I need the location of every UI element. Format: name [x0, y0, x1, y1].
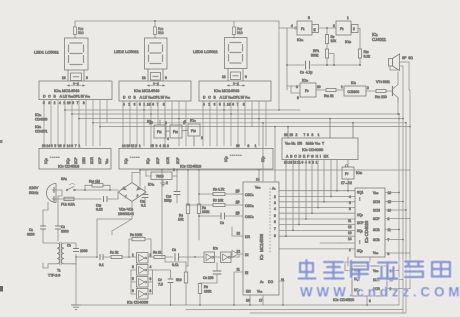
svg-text:2: 2 — [367, 86, 369, 90]
node staircase dots — [285, 190, 349, 237]
capacitor C8 — [198, 211, 243, 225]
svg-text:11: 11 — [237, 268, 241, 272]
svg-text:1: 1 — [349, 248, 351, 252]
node t1 gnd — [75, 256, 77, 258]
node rail joins — [139, 169, 260, 171]
svg-text:5: 5 — [349, 201, 351, 205]
capacitor C5 — [172, 248, 204, 267]
gate IC2d — [165, 121, 185, 138]
svg-text:10k: 10k — [331, 39, 337, 43]
wire ground bus 2 — [250, 312, 406, 314]
svg-text:0.1λ: 0.1λ — [172, 263, 179, 267]
transistor VT4 9011 — [376, 72, 398, 103]
counter IC8 CD4518R — [348, 188, 391, 257]
capacitor C1 — [27, 226, 46, 241]
svg-text:2: 2 — [166, 181, 168, 185]
svg-text:C3: C3 — [67, 244, 71, 248]
svg-text:3CP: 3CP — [373, 217, 380, 221]
wire right vertical v4 — [405, 123, 407, 313]
label IC2a CD4069 — [35, 113, 48, 122]
wire gate stub up — [159, 120, 161, 125]
watermark glyph row — [299, 260, 451, 279]
svg-text:10 16 2 7 9 8: 10 16 2 7 9 8 1 — [284, 133, 320, 137]
svg-text:2CN: 2CN — [373, 200, 380, 204]
wire slant joint — [112, 219, 132, 235]
speaker SP — [389, 54, 414, 71]
resistor R15 — [73, 21, 83, 38]
svg-text:510: 510 — [158, 31, 164, 35]
svg-text:IC4b MC14543: IC4b MC14543 — [134, 88, 160, 93]
svg-text:R1 2k: R1 2k — [110, 251, 119, 255]
wire amp mid links — [153, 257, 187, 275]
svg-text:- - - - -: - - - - - — [130, 155, 139, 159]
wire ground bus 3 — [186, 309, 403, 311]
svg-text:IC4 CD4518: IC4 CD4518 — [58, 164, 80, 169]
node pre gate — [194, 256, 196, 258]
svg-text:510: 510 — [78, 31, 84, 35]
wire ground bus 1 — [76, 304, 399, 306]
potentiometer RP1 — [311, 44, 334, 66]
svg-text:C8: C8 — [220, 221, 224, 225]
wire bridge left in — [117, 192, 119, 199]
svg-text:CD4069: CD4069 — [35, 118, 48, 122]
label IC1 CJ4011 — [372, 32, 387, 42]
op-amp U2 MC14543 #2 — [119, 81, 191, 107]
svg-text:R2 100k: R2 100k — [130, 233, 142, 237]
capacitor C12 — [164, 192, 180, 204]
svg-text:1CR: 1CR — [166, 157, 170, 164]
svg-text:IC7 MC14566: IC7 MC14566 — [259, 233, 264, 260]
svg-text:IC2b: IC2b — [35, 125, 42, 129]
svg-text:D C B A LE VDDDF1 BI VS: D C B A LE VDDDF1 BI VSS — [123, 96, 171, 100]
wire column group display2 decoder pins — [123, 101, 186, 146]
svg-text:14 10 12 2 1 15 9: 14 10 12 2 1 15 9 4 11 3 — [122, 144, 169, 148]
gate IC1a — [291, 16, 319, 42]
wire gnd drop — [75, 257, 77, 305]
wire drop to gate IC1a — [279, 21, 295, 28]
svg-text:DO: DO — [268, 280, 273, 284]
svg-text:IC2a: IC2a — [35, 113, 42, 117]
svg-text:E: E — [314, 28, 316, 32]
svg-text:10: 10 — [149, 121, 153, 125]
svg-text:EI: EI — [245, 271, 248, 275]
svg-text:VD1~VD4: VD1~VD4 — [119, 208, 134, 212]
svg-text:IC1b: IC1b — [345, 40, 352, 44]
svg-text:11: 11 — [388, 228, 392, 232]
wire gate chain right — [152, 270, 154, 294]
wire right vertical v5 — [409, 62, 410, 127]
wire gate stub down — [193, 136, 195, 146]
svg-text:6: 6 — [349, 207, 351, 211]
svg-text:13 14 6 5 16 2 14 8 7 1: 13 14 6 5 16 2 14 8 7 1 — [42, 144, 80, 148]
svg-text:a~g: a~g — [233, 82, 239, 86]
svg-text:- - - - -: - - - - - — [50, 155, 59, 159]
svg-text:2: 2 — [150, 253, 152, 257]
svg-text:13: 13 — [222, 75, 226, 79]
svg-text:9: 9 — [297, 96, 299, 100]
node bus junctions — [64, 109, 411, 127]
resistor R4 pullup — [178, 170, 190, 266]
svg-text:IC4c MC14543: IC4c MC14543 — [214, 88, 240, 93]
svg-text:16: 16 — [246, 299, 250, 303]
wire right vertical v1 emitter — [397, 98, 399, 115]
resistor R5 — [198, 283, 211, 305]
gate IC6b buffer — [341, 165, 363, 185]
wire right vertical v3 — [400, 66, 404, 313]
svg-text:IC2: IC2 — [351, 81, 356, 85]
svg-text:5: 5 — [308, 16, 310, 20]
counter IC4 CD4518 — [39, 144, 111, 169]
svg-text:R6 4.7k: R6 4.7k — [213, 188, 224, 192]
wire IC8 right stubs — [385, 193, 410, 254]
wire bus PH line — [79, 118, 403, 120]
wire gate chain left — [130, 270, 132, 294]
wire IC7 vdd stub — [258, 170, 260, 182]
svg-text:3CN: 3CN — [373, 209, 380, 213]
svg-text:12: 12 — [348, 225, 352, 229]
svg-text:2: 2 — [274, 195, 276, 199]
svg-text:IC4a: IC4a — [148, 183, 155, 187]
capacitor C6 — [200, 263, 221, 284]
svg-text:SA1: SA1 — [61, 177, 68, 181]
svg-text:EN: EN — [246, 290, 251, 294]
svg-text:19: 19 — [236, 201, 240, 205]
resistor R3 — [153, 251, 173, 259]
svg-text:11: 11 — [348, 219, 352, 223]
inverter IC2-2 — [131, 265, 153, 276]
wire CD4060 top pins — [287, 118, 354, 138]
svg-text:IC6b: IC6b — [356, 171, 363, 175]
counter IC9 CD4520 — [333, 266, 393, 303]
gate IC3a — [204, 247, 221, 263]
wire IC7 bottom stubs — [250, 281, 283, 305]
svg-text:5: 5 — [132, 277, 134, 281]
fuse FU — [56, 197, 101, 206]
svg-text:IC6 CD4060: IC6 CD4060 — [302, 147, 324, 152]
gate IC3b — [221, 252, 240, 263]
svg-text:LED3 LC5011: LED3 LC5011 — [193, 49, 219, 54]
gate IC1c — [287, 79, 321, 101]
svg-text:D C B A LE VDDDF1 BI VS: D C B A LE VDDDF1 BI VSS — [203, 96, 251, 100]
svg-text:12: 12 — [237, 250, 241, 254]
svg-text:8: 8 — [150, 289, 152, 293]
node J1 — [154, 20, 156, 22]
ground main — [72, 305, 81, 309]
wire bus s1 line — [93, 122, 406, 124]
capacitor C7 — [158, 275, 173, 305]
svg-text:VT4 9011: VT4 9011 — [376, 80, 390, 84]
svg-text:R3 1k: R3 1k — [153, 251, 162, 255]
svg-text:- - - - - -: - - - - - - — [230, 153, 242, 157]
scan artifact left edge 1 — [0, 140, 3, 143]
buffer into DI pin — [232, 251, 238, 258]
wire bus to IC7 A1 — [263, 123, 275, 182]
svg-text:DR: DR — [245, 235, 250, 239]
plug P1 — [47, 184, 63, 203]
svg-text:IC1c: IC1c — [302, 79, 309, 83]
svg-text:17→12: 17→12 — [341, 181, 352, 185]
svg-text:6: 6 — [150, 277, 152, 281]
capacitor C2 — [56, 225, 69, 241]
ground 7805 — [161, 180, 166, 186]
svg-text:⋮: ⋮ — [358, 240, 361, 244]
inverter IC2-4 — [131, 289, 153, 300]
wire column group display1 decoder pins — [44, 100, 107, 147]
svg-text:C5: C5 — [172, 248, 176, 252]
svg-text:4: 4 — [291, 24, 293, 28]
svg-text:a~g: a~g — [73, 82, 79, 86]
svg-text:1: 1 — [132, 253, 134, 257]
switch SA1 — [61, 177, 85, 191]
svg-text:9: 9 — [132, 289, 134, 293]
svg-text:0.1: 0.1 — [99, 263, 104, 267]
wire right vertical v2 — [398, 114, 400, 305]
capacitor C4 — [99, 255, 104, 268]
resistor R16 — [153, 21, 163, 38]
svg-text:100k: 100k — [202, 210, 210, 214]
wire drop from top bus x279 — [278, 28, 280, 110]
wire osc feedback — [287, 64, 360, 66]
svg-text:2CP: 2CP — [357, 221, 364, 225]
svg-text:0.1: 0.1 — [141, 204, 146, 208]
capacitor C3 — [67, 244, 88, 254]
resistor R11 — [316, 88, 344, 98]
IC U7 MC14566 — [236, 178, 285, 303]
svg-text:7: 7 — [388, 238, 390, 242]
svg-text:510: 510 — [176, 278, 182, 282]
svg-text:0.22: 0.22 — [96, 208, 103, 212]
svg-text:9: 9 — [245, 75, 247, 79]
gate IC2c — [147, 120, 169, 142]
display LED2 LC5011 — [114, 38, 167, 69]
svg-text:510: 510 — [237, 31, 243, 35]
svg-text:3: 3 — [165, 121, 167, 125]
svg-text:18: 18 — [236, 212, 240, 216]
svg-text:C6 150: C6 150 — [203, 276, 214, 280]
svg-text:LED2 LC5011: LED2 LC5011 — [114, 49, 140, 54]
svg-text:3CB: 3CB — [373, 238, 380, 242]
svg-text:13: 13 — [62, 76, 66, 80]
wire osc left drop — [286, 28, 288, 90]
svg-text:F11: F11 — [157, 130, 162, 134]
svg-text:FU1 0.5A: FU1 0.5A — [61, 203, 76, 207]
svg-text:100k: 100k — [204, 290, 212, 294]
resistor RT 510 — [176, 266, 188, 305]
wire secondary to amp — [76, 256, 96, 258]
svg-text:1EN: 1EN — [82, 157, 86, 164]
svg-text:7.5: 7.5 — [158, 283, 163, 287]
svg-text:2: 2 — [201, 136, 203, 140]
svg-text:R14 1M: R14 1M — [89, 180, 100, 184]
display LED1 pin links 13 9 — [62, 70, 88, 81]
wire column group display3 decoder pins — [203, 101, 266, 146]
svg-text:2: 2 — [353, 27, 355, 31]
svg-text:13: 13 — [348, 231, 352, 235]
wire r4 to 510 — [186, 265, 188, 267]
svg-text:9: 9 — [165, 76, 167, 80]
resistor R1 — [103, 251, 129, 259]
svg-text:10k: 10k — [178, 218, 184, 222]
svg-text:R7 10k: R7 10k — [213, 199, 224, 203]
counter IC5 CD4518 — [119, 144, 273, 169]
wire IC7 left pin stubs — [232, 227, 243, 305]
resistor R12 — [366, 89, 392, 99]
svg-text:4: 4 — [150, 265, 152, 269]
svg-text:8: 8 — [369, 299, 371, 303]
svg-text:16: 16 — [388, 191, 392, 195]
svg-text:1CP: 1CP — [98, 157, 102, 164]
svg-text:5: 5 — [184, 120, 186, 124]
svg-text:6: 6 — [274, 220, 276, 224]
svg-text:5: 5 — [274, 214, 276, 218]
node bus dots — [170, 304, 368, 306]
svg-text:1N4001×4: 1N4001×4 — [118, 212, 134, 216]
scan artifact left edge 2 — [0, 286, 3, 292]
display LED2 pin links 13 9 — [142, 69, 167, 81]
svg-text:3Q1: 3Q1 — [357, 191, 364, 195]
svg-text:3: 3 — [274, 201, 276, 205]
wire gate link 2 — [182, 130, 188, 131]
wire right vertical v6 — [409, 127, 411, 289]
svg-text:14 13 12 11 6 4 5 3 1: 14 13 12 11 6 4 5 3 1 — [284, 161, 318, 165]
wire bus s2 line — [100, 126, 410, 128]
svg-text:R10: R10 — [364, 50, 370, 54]
wire top supply bus — [75, 20, 279, 22]
transformer T1 — [43, 241, 76, 278]
svg-text:CJ9300: CJ9300 — [348, 90, 360, 94]
wire CD4060 drops — [286, 160, 348, 237]
display LED3 LC5011 — [193, 38, 247, 69]
wire IC9 stubs — [345, 257, 410, 305]
svg-text:WWW.cndzz.COM: WWW.cndzz.COM — [300, 285, 460, 300]
svg-text:6.2k: 6.2k — [364, 55, 371, 59]
regulator 7805 — [146, 168, 177, 191]
node IC8 right dots — [398, 192, 407, 241]
svg-text:16 8 1: 16 8 1 — [236, 144, 257, 148]
svg-text:50Hz: 50Hz — [29, 190, 38, 195]
node right joins — [397, 113, 404, 119]
svg-text:20: 20 — [236, 190, 240, 194]
svg-text:R5: R5 — [204, 285, 208, 289]
svg-text:7805: 7805 — [156, 175, 164, 179]
svg-text:a~g: a~g — [153, 82, 159, 86]
resistor R9 — [325, 28, 336, 44]
svg-text:IC2 CD4069: IC2 CD4069 — [127, 300, 149, 305]
gate IC2e — [184, 119, 203, 141]
display LED3 pin links 13 9 — [222, 69, 247, 82]
svg-text:14: 14 — [348, 237, 352, 241]
capacitor C9 — [300, 61, 312, 75]
svg-text:4: 4 — [167, 137, 169, 141]
resistor R7 — [187, 199, 243, 207]
svg-text:IC5 CD4518: IC5 CD4518 — [180, 164, 202, 169]
counter IC6 CD4060 — [282, 133, 358, 165]
svg-text:15: 15 — [388, 200, 392, 204]
node sec join — [96, 256, 98, 258]
svg-text:SP 8Ω: SP 8Ω — [402, 56, 413, 60]
svg-text:C2: C2 — [61, 225, 65, 229]
wire bridge bottom down — [97, 202, 132, 258]
svg-text:LED1 LC5011: LED1 LC5011 — [34, 50, 60, 55]
svg-text:IC8 CD4028: IC8 CD4028 — [364, 220, 369, 243]
svg-text:3: 3 — [173, 168, 175, 172]
svg-text:3300: 3300 — [61, 230, 69, 234]
svg-text:CJ4011: CJ4011 — [372, 37, 387, 42]
svg-text:CD4071: CD4071 — [35, 130, 48, 134]
svg-text:17: 17 — [259, 299, 263, 303]
svg-text:R12 220: R12 220 — [375, 95, 387, 99]
svg-text:5 3 2 4 1 16 6: 5 3 2 4 1 16 6 7 8 — [43, 101, 85, 105]
svg-text:IC1a: IC1a — [297, 38, 304, 42]
bridge rectifier VD1-VD4 — [118, 183, 146, 217]
resistor R14 1M — [84, 180, 118, 191]
svg-text:2: 2 — [388, 217, 390, 221]
svg-text:IC3: IC3 — [213, 247, 218, 251]
inverter IC2-1 — [129, 253, 154, 264]
svg-text:13: 13 — [237, 232, 241, 236]
wire left col joins — [161, 170, 163, 257]
svg-text:F10: F10 — [191, 129, 196, 133]
node bus ic7 dots — [262, 122, 276, 128]
svg-text:10: 10 — [317, 85, 321, 89]
op-amp U1 MC14543 #1 — [39, 81, 112, 105]
svg-text:F12: F12 — [173, 130, 178, 134]
resistor R17 — [232, 21, 242, 38]
resistor R8 pullup — [197, 170, 209, 240]
node amp in — [128, 256, 130, 258]
wire IC7 out rows — [279, 191, 355, 249]
resistor R10 — [358, 29, 370, 66]
wire bridge plus up — [132, 170, 140, 186]
IC U5 CJ9300 — [341, 81, 369, 96]
wire left pin rows IC8 extra — [320, 242, 355, 244]
capacitor C11 — [140, 186, 148, 208]
svg-text:D C B A LE VDDDF1 BI VS: D C B A LE VDDDF1 BI VSS — [43, 95, 91, 99]
svg-text:9: 9 — [86, 76, 88, 80]
svg-text:4: 4 — [274, 207, 276, 211]
svg-text:1: 1 — [347, 16, 349, 20]
node osc2 — [286, 64, 361, 66]
wire mains down left — [43, 190, 62, 226]
display LED1 LC5011 — [34, 38, 88, 70]
svg-text:C9 4.7μ: C9 4.7μ — [300, 71, 312, 75]
svg-text:4: 4 — [349, 195, 351, 199]
svg-text:C1: C1 — [29, 228, 33, 232]
svg-text:IC4a MC14543: IC4a MC14543 — [54, 88, 80, 93]
svg-text:1000: 1000 — [80, 249, 88, 253]
svg-text:500k: 500k — [311, 54, 319, 58]
svg-text:3300: 3300 — [27, 233, 35, 237]
resistor R2 feedback — [129, 233, 151, 257]
svg-text:R11 2k: R11 2k — [324, 94, 334, 98]
capacitor C10 — [96, 197, 118, 212]
gate IC1b — [333, 16, 358, 44]
svg-text:7: 7 — [274, 227, 276, 231]
svg-text:3: 3 — [333, 24, 335, 28]
inverter IC2-3 — [131, 277, 153, 288]
node osc1 — [326, 27, 328, 29]
label 220V 50Hz — [29, 185, 39, 195]
svg-text:3: 3 — [132, 265, 134, 269]
svg-text:1: 1 — [341, 85, 343, 89]
svg-text:RP1: RP1 — [313, 49, 320, 53]
svg-text:TTF-2-9: TTF-2-9 — [48, 274, 60, 278]
wire bus BI line — [72, 113, 399, 115]
wire gate a to b — [319, 27, 337, 29]
svg-text:A B C D E F G H I EX: A B C D E F G H I EX — [286, 155, 329, 159]
svg-text:3CB: 3CB — [373, 228, 380, 232]
resistor R6 — [198, 188, 243, 196]
